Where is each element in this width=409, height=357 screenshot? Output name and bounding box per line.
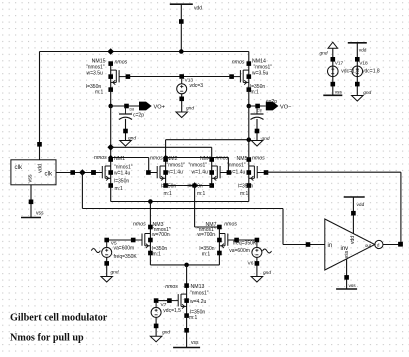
- power vdd above V18: [348, 43, 367, 54]
- label NM15 texts: [86, 59, 128, 96]
- svg-text:m:1: m:1: [95, 90, 104, 96]
- wire NM13 source to vss: [184, 316, 189, 348]
- wire clk to inverter input: [82, 173, 324, 247]
- svg-text:NM1: NM1: [114, 156, 125, 162]
- label VO+: [154, 104, 165, 110]
- label D9: [257, 108, 262, 112]
- svg-text:w=3.5u: w=3.5u: [252, 71, 268, 77]
- source V7 vdc: [151, 302, 181, 336]
- wire tail to NM13: [186, 265, 188, 286]
- op-amp inverter U1: [325, 219, 383, 270]
- transistor NM15: [108, 61, 130, 92]
- ground below V6: [251, 277, 263, 283]
- node junction inverter output: [398, 242, 403, 247]
- svg-text:nmos: nmos: [224, 222, 237, 228]
- voltage source V13 vdc=3: [177, 74, 204, 112]
- ground below C1: [120, 136, 137, 147]
- label NM3 texts: [133, 222, 171, 258]
- title line 2: [10, 333, 84, 344]
- wire NM4 gate feedback: [163, 155, 228, 173]
- transistor NM5: [247, 157, 269, 188]
- transistor NM13: [167, 283, 189, 318]
- source V6 vsin: [229, 240, 271, 276]
- svg-text:m:1: m:1: [189, 315, 198, 321]
- wire cross NM2 drain to VO-: [166, 140, 249, 160]
- svg-text:NM4: NM4: [200, 156, 211, 162]
- svg-text:m:1: m:1: [251, 90, 260, 96]
- svg-text:gnd: gnd: [262, 136, 270, 142]
- label NM13 texts: [165, 284, 209, 321]
- node junction clk output: [79, 169, 86, 176]
- label VO-: [280, 104, 291, 110]
- node junction NM3 drain: [148, 199, 153, 204]
- svg-text:vdc=1.8: vdc=1.8: [362, 68, 380, 74]
- svg-text:vss: vss: [335, 91, 343, 96]
- svg-text:vss: vss: [344, 250, 350, 258]
- svg-text:l=350n: l=350n: [161, 183, 176, 189]
- svg-text:w=700n: w=700n: [152, 232, 170, 238]
- node VO+ junction: [108, 104, 113, 109]
- svg-text:NM5: NM5: [237, 156, 248, 162]
- capacitor C1 c=2p: [119, 107, 144, 141]
- svg-text:va=600m: va=600m: [229, 248, 250, 254]
- svg-text:vss: vss: [349, 284, 357, 289]
- wire rail corner to NM14: [248, 52, 250, 64]
- svg-text:vdd: vdd: [359, 48, 367, 54]
- wire inverter vdd: [351, 197, 356, 234]
- power vss under clk box: [21, 211, 44, 218]
- ground below V7: [150, 336, 162, 342]
- svg-text:nmos: nmos: [232, 60, 245, 66]
- svg-text:vdc=3: vdc=3: [190, 83, 204, 89]
- source V18 vdc=1.8: [352, 60, 380, 76]
- svg-text:w=1.4u: w=1.4u: [229, 170, 245, 176]
- ground below V13: [176, 112, 188, 118]
- svg-text:vdd: vdd: [38, 164, 44, 173]
- svg-text:vss: vss: [36, 211, 44, 217]
- svg-text:vdd: vdd: [357, 202, 365, 208]
- svg-text:C8: C8: [257, 108, 262, 112]
- wire NM14 source to VO- node: [248, 90, 250, 106]
- svg-text:gnd: gnd: [162, 329, 170, 335]
- svg-text:m:1: m:1: [202, 252, 211, 258]
- svg-text:w=1.4u: w=1.4u: [114, 171, 130, 177]
- svg-text:freq=350K: freq=350K: [114, 254, 138, 260]
- svg-text:m:1: m:1: [164, 191, 173, 197]
- svg-text:m:1: m:1: [153, 252, 162, 258]
- wire rail to clk vdd: [37, 52, 42, 160]
- svg-text:w=1.4u: w=1.4u: [167, 170, 183, 176]
- svg-text:clk: clk: [45, 171, 53, 178]
- svg-text:VO+: VO+: [154, 104, 165, 110]
- node junction cross / VO- wire: [247, 137, 252, 142]
- label NM1 texts: [94, 155, 133, 192]
- wire tail node: [150, 253, 219, 265]
- svg-text:NM13: NM13: [191, 284, 205, 290]
- node junction top rail / NM15 drain: [107, 48, 114, 55]
- node VO- junction: [247, 104, 252, 109]
- svg-text:gnd: gnd: [186, 106, 194, 112]
- svg-text:d: d: [377, 243, 380, 248]
- svg-text:NM2: NM2: [167, 156, 178, 162]
- svg-text:D8: D8: [130, 107, 135, 111]
- wire inverter output: [383, 244, 401, 246]
- svg-text:"nmos1": "nmos1": [227, 163, 246, 169]
- svg-text:freq=350K: freq=350K: [233, 240, 257, 246]
- wire VO+ stub: [111, 104, 139, 109]
- transistor NM1: [91, 157, 113, 188]
- svg-text:vss: vss: [191, 340, 199, 346]
- wire inverter vss: [344, 259, 349, 289]
- source V5 vsin: [91, 241, 137, 277]
- svg-text:Gilbert cell modulator: Gilbert cell modulator: [10, 313, 108, 324]
- svg-text:V18: V18: [359, 60, 368, 66]
- svg-text:l=350n: l=350n: [238, 183, 253, 189]
- node junction VO+ / cross wire: [107, 144, 114, 151]
- transistor NM3: [131, 225, 153, 256]
- wire clk output: [56, 170, 96, 175]
- svg-text:nmos: nmos: [133, 222, 146, 228]
- node junction top rail / vdd: [179, 49, 184, 54]
- label NM7 texts: [197, 222, 237, 258]
- wire NM1 NM5 sources: [111, 186, 249, 202]
- svg-text:"nmos1": "nmos1": [190, 291, 209, 297]
- instance clk generator box: [11, 160, 56, 185]
- power vdd above inverter: [344, 197, 365, 208]
- svg-text:gnd: gnd: [128, 136, 136, 142]
- power vss under V17: [323, 91, 342, 96]
- ground below V18: [352, 90, 372, 101]
- svg-text:nmos: nmos: [150, 155, 163, 161]
- svg-text:gnd: gnd: [320, 51, 328, 57]
- node junction tail: [184, 263, 189, 268]
- svg-text:c=2p: c=2p: [133, 113, 144, 119]
- wire VO- stub: [249, 104, 266, 109]
- source V17 vdc=1.8: [328, 60, 360, 76]
- svg-text:clk: clk: [15, 164, 23, 171]
- wire NM13 gate to V7: [154, 298, 170, 303]
- svg-text:c=2p: c=2p: [266, 99, 277, 105]
- svg-text:nmos: nmos: [94, 155, 107, 161]
- power vdd (top center): [170, 4, 202, 11]
- svg-text:V17: V17: [335, 60, 344, 66]
- svg-text:w=3.5u: w=3.5u: [87, 71, 103, 77]
- wire cross VO+ to NM4 drain: [111, 147, 212, 159]
- wire clk box vss: [29, 185, 34, 218]
- svg-text:vss: vss: [28, 174, 34, 182]
- ground above V17: [320, 42, 338, 56]
- svg-text:vdc=1.5: vdc=1.5: [163, 308, 181, 314]
- wire NM2 NM4 sources: [166, 185, 212, 187]
- svg-text:"nmos1": "nmos1": [167, 163, 186, 169]
- svg-text:gnd: gnd: [363, 90, 371, 96]
- svg-text:nmos: nmos: [216, 155, 229, 161]
- svg-text:nmos: nmos: [252, 155, 265, 161]
- wire down to NM3 drain: [149, 202, 151, 228]
- svg-text:gnd: gnd: [111, 269, 119, 275]
- wire V17 column: [331, 48, 336, 95]
- ground below C2: [251, 136, 270, 146]
- wire NM7 gate to V6: [237, 238, 260, 243]
- wire top rail: [40, 51, 249, 53]
- transistor NM4: [209, 157, 231, 188]
- wire NM15 source to VO+ node: [110, 90, 112, 106]
- svg-text:in: in: [328, 243, 333, 249]
- wire NM5 gate to inverter output: [266, 172, 401, 244]
- label D8: [130, 107, 135, 111]
- wire NM2 gate feedback: [108, 155, 149, 173]
- svg-text:Nmos for pull up: Nmos for pull up: [10, 333, 84, 344]
- label NM2 texts: [150, 155, 185, 197]
- power vss bottom: [173, 340, 200, 347]
- svg-text:vdd: vdd: [350, 236, 356, 244]
- svg-text:V6: V6: [248, 261, 254, 267]
- svg-text:va=600m: va=600m: [114, 246, 135, 252]
- svg-text:vdd: vdd: [194, 6, 202, 12]
- label NM14 texts: [232, 59, 272, 96]
- transistor NM14: [229, 61, 251, 92]
- svg-text:out: out: [365, 243, 372, 248]
- wire NM15/NM14 gate bias: [128, 76, 232, 78]
- svg-text:"nmos1": "nmos1": [189, 163, 208, 169]
- wire down to NM7 drain: [195, 186, 220, 228]
- title line 1: [10, 313, 108, 324]
- node junction NM2/NM4 sources: [191, 182, 198, 189]
- svg-text:m:1: m:1: [240, 191, 249, 197]
- capacitor C2 c=2p: [251, 99, 278, 141]
- label NM5 texts: [227, 155, 265, 197]
- svg-text:m:1: m:1: [197, 191, 206, 197]
- label NM4 texts: [188, 155, 229, 197]
- wire VO+ down: [110, 106, 112, 160]
- pin VO- arrow: [266, 102, 279, 111]
- wire VO- down to NM5: [248, 106, 250, 160]
- wire NM3 gate to V5: [104, 238, 133, 243]
- pin VO+ arrow: [139, 102, 152, 111]
- transistor NM2: [146, 157, 168, 188]
- svg-text:w=4.2u: w=4.2u: [190, 299, 206, 305]
- svg-text:w=700n: w=700n: [197, 232, 215, 238]
- svg-text:l=350n: l=350n: [114, 179, 129, 185]
- svg-text:nmos: nmos: [165, 284, 178, 290]
- svg-text:VO−: VO−: [280, 104, 291, 110]
- transistor NM7: [217, 225, 239, 256]
- svg-text:m:1: m:1: [115, 186, 124, 192]
- wire V18 column: [355, 43, 360, 96]
- wire vdd stem: [179, 4, 184, 51]
- svg-text:nmos: nmos: [115, 60, 128, 66]
- power vss below inverter: [336, 284, 357, 289]
- svg-text:gnd: gnd: [263, 270, 271, 276]
- svg-text:w=1.4u: w=1.4u: [192, 170, 208, 176]
- ground below V5: [101, 277, 113, 283]
